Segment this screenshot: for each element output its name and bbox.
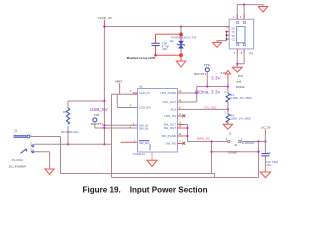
svg-text:Mounted on top of D3.: Mounted on top of D3. [127,56,156,60]
svg-text:150ma, 3.3v: 150ma, 3.3v [194,89,220,94]
svg-text:DC_POWER: DC_POWER [9,164,26,168]
svg-text:VSUP_IM: VSUP_IM [98,16,112,20]
svg-text:100K, 1%, 0603: 100K, 1%, 0603 [230,116,251,120]
svg-text:TP6: TP6 [94,113,100,117]
svg-text:R5: R5 [63,110,67,114]
svg-text:SW_IN: SW_IN [139,126,148,130]
svg-text:LDO_EN: LDO_EN [139,106,151,110]
svg-text:MAIN_DC: MAIN_DC [197,137,210,141]
svg-text:LDO_PGND: LDO_PGND [160,91,176,95]
svg-text:16V: 16V [266,163,271,167]
svg-text:C1: C1 [267,151,271,155]
svg-text:D4: D4 [170,39,174,43]
svg-text:J1: J1 [14,128,17,132]
svg-text:RS232: RS232 [236,85,245,89]
svg-text:16V: 16V [162,47,167,51]
svg-text:DGND: DGND [229,151,238,155]
svg-text:3.3V: 3.3V [211,75,222,80]
svg-text:5V: 5V [232,27,235,30]
svg-text:3.3V: 3.3V [220,71,226,75]
svg-text:LDO_PG: LDO_PG [164,114,176,118]
svg-text:ADJ: ADJ [171,108,177,112]
svg-text:SW_PG: SW_PG [166,142,177,146]
svg-text:DVI: DVI [238,74,243,78]
svg-text:GND: GND [148,144,152,150]
svg-text:TP9: TP9 [204,63,210,67]
svg-text:P3: P3 [249,52,253,56]
svg-text:4.99K, 1%, 0603: 4.99K, 1%, 0603 [230,96,252,100]
svg-text:SW_PGND: SW_PGND [161,134,176,138]
svg-text:PJ-200A: PJ-200A [12,158,23,162]
svg-text:G2: G2 [232,39,236,42]
svg-text:LDO_IN: LDO_IN [139,91,149,95]
svg-text:TVL_ADJ: TVL_ADJ [204,106,217,110]
svg-text:and: and [236,79,241,83]
svg-text:TESTPT1: TESTPT1 [91,122,104,126]
svg-text:LDO_OUT: LDO_OUT [162,100,176,104]
svg-text:TESTPT1: TESTPT1 [194,72,207,76]
svg-text:USB_5V: USB_5V [90,107,109,112]
svg-text:VBAT: VBAT [115,80,123,84]
svg-text:U1: U1 [139,84,143,88]
svg-text:TPS2141: TPS2141 [133,152,145,156]
svg-text:SW_OUT: SW_OUT [164,126,177,130]
svg-text:NKJ360LCN1: NKJ360LCN1 [61,130,79,134]
svg-text:P6SMB6.8CA-T/R: P6SMB6.8CA-T/R [171,35,196,39]
svg-text:DC_5V: DC_5V [261,126,270,130]
svg-text:Figure 19. Input Power Sect: Figure 19. Input Power Section [83,185,208,194]
